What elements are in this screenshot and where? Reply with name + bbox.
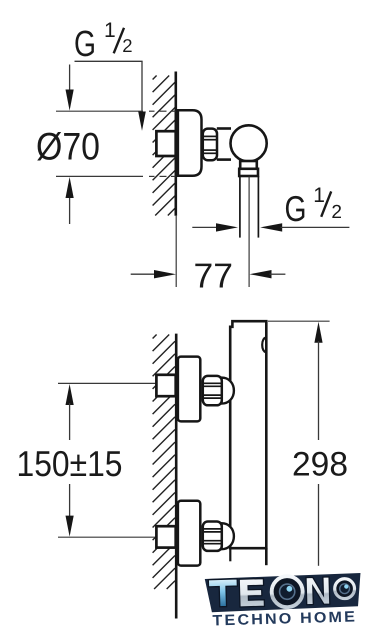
dimension Ø70 arrow bottom xyxy=(69,195,71,224)
union dome upper xyxy=(222,378,234,404)
hex nut lower (side view) xyxy=(203,522,222,551)
dimension 77 xyxy=(131,273,156,275)
TEONO logo xyxy=(205,573,362,630)
dimension 298 arrow up xyxy=(314,322,322,343)
wall hatch (top view) xyxy=(153,76,175,216)
supply union square (top view) xyxy=(156,131,175,156)
wall surface line (top view) xyxy=(175,72,178,216)
outlet centre line xyxy=(248,177,250,288)
dimension 150±15 extension top xyxy=(58,382,156,384)
valve body circle (top view) xyxy=(231,125,267,161)
escutcheon upper (side view) xyxy=(178,357,200,422)
svg-text:150±15: 150±15 xyxy=(17,443,123,484)
supply union square lower (side view) xyxy=(156,526,175,547)
logo letter O 1 xyxy=(271,576,303,608)
logo letter E xyxy=(239,579,264,607)
dimension 150±15 extension bottom xyxy=(58,536,156,538)
svg-text:G: G xyxy=(285,188,307,229)
union dome lower xyxy=(222,523,234,549)
logo letter O 2 xyxy=(334,579,354,599)
svg-text:1: 1 xyxy=(104,19,116,42)
dimension 150±15 arrow down xyxy=(69,484,71,517)
dimension Ø70 arrow top xyxy=(69,65,71,94)
outlet collar lower band xyxy=(239,169,258,176)
supply union square upper (side view) xyxy=(156,375,175,396)
dimension 150±15 arrow up xyxy=(66,384,74,405)
dimension G 1/2 (bottom) arrows xyxy=(192,226,218,228)
dimension Ø70 extension line top xyxy=(56,110,143,112)
escutcheon lower (side view) xyxy=(178,501,200,566)
logo letter T xyxy=(208,579,238,607)
svg-text:2: 2 xyxy=(122,35,132,56)
svg-text:Ø70: Ø70 xyxy=(36,125,100,168)
body right edge stub xyxy=(265,548,268,565)
hex nut upper (side view) xyxy=(203,376,222,405)
dimension 298 lower shaft xyxy=(318,484,320,566)
wall surface line (side view) xyxy=(175,334,178,619)
outlet pipe (top view) xyxy=(239,176,241,237)
escutcheon (top view) xyxy=(178,110,202,176)
logo letter N xyxy=(306,577,330,605)
svg-text:2: 2 xyxy=(331,202,342,223)
wall hatch (side view) xyxy=(153,335,175,590)
body left stub xyxy=(229,548,231,561)
svg-text:1: 1 xyxy=(313,184,325,207)
dimension Ø70 extension line bottom xyxy=(56,175,143,177)
dimension 298 extension line xyxy=(268,320,330,322)
svg-text:G: G xyxy=(74,23,96,64)
leader line G 1/2 (top) xyxy=(75,60,143,62)
valve neck (top view) xyxy=(217,127,231,130)
knob arc on body edge xyxy=(262,337,266,353)
svg-text:298: 298 xyxy=(292,446,348,484)
thermostat body xyxy=(230,321,266,548)
extension line wall-to-77 xyxy=(175,216,177,287)
hex nut (top view) xyxy=(203,129,217,161)
svg-text:77: 77 xyxy=(194,256,234,295)
logo band xyxy=(205,573,362,612)
outlet collar upper band xyxy=(240,161,257,169)
